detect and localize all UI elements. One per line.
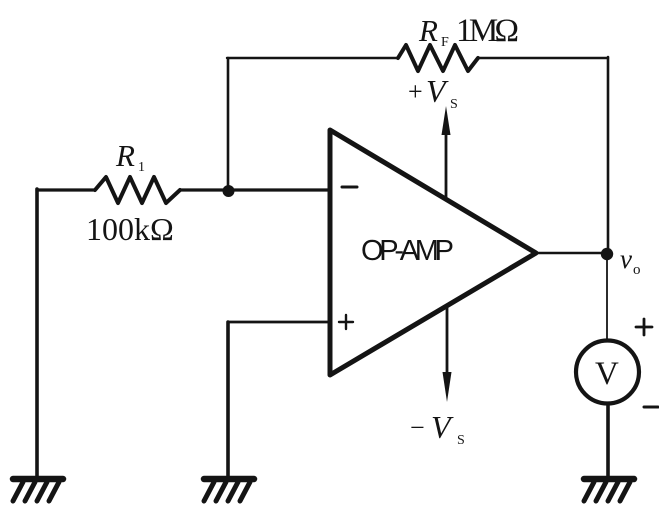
svg-text:1: 1 <box>138 160 145 175</box>
voltmeter plus label <box>636 319 652 335</box>
label 1MOhm <box>456 13 519 49</box>
svg-text:R: R <box>418 13 438 48</box>
resistor R1 <box>95 177 180 203</box>
voltmeter V1 <box>576 341 639 404</box>
svg-text:V: V <box>595 356 619 392</box>
svg-text:v: v <box>620 244 632 274</box>
svg-text:+: + <box>408 77 423 106</box>
label -VS <box>410 409 465 448</box>
svg-text:100kΩ: 100kΩ <box>86 211 174 247</box>
wire node to voltmeter <box>606 254 608 341</box>
svg-text:1MΩ: 1MΩ <box>456 13 519 49</box>
wire voltmeter to ground <box>606 404 610 478</box>
svg-text:V: V <box>426 73 449 109</box>
wire right vertical down <box>607 57 610 253</box>
op-amp minus input mark <box>342 186 357 189</box>
op-amp U1 triangle <box>330 130 536 375</box>
wire output <box>536 252 608 255</box>
label 100kOhm <box>86 211 174 247</box>
supply arrow +VS <box>445 128 448 199</box>
label +VS <box>408 73 458 112</box>
voltmeter minus label <box>644 406 658 409</box>
wire input left horizontal <box>37 188 95 191</box>
wire left vertical down <box>35 189 39 477</box>
svg-text:F: F <box>441 35 449 50</box>
label RF <box>418 13 449 50</box>
svg-text:S: S <box>450 97 458 112</box>
wire RF to right <box>478 57 608 59</box>
output node dot <box>601 248 613 260</box>
svg-text:OP-AMP: OP-AMP <box>361 235 454 267</box>
resistor RF <box>398 45 478 71</box>
svg-text:o: o <box>633 262 641 278</box>
junction node dot <box>223 185 235 197</box>
wire noninverting input horizontal <box>228 321 330 324</box>
svg-text:R: R <box>115 138 135 173</box>
svg-text:V: V <box>431 409 454 445</box>
wire R1 to inverting input <box>180 188 330 191</box>
wire middle vertical down <box>226 322 230 477</box>
svg-text:−: − <box>410 413 425 442</box>
ground middle <box>204 479 254 501</box>
label R1 <box>115 138 145 175</box>
wire feedback vertical up <box>227 58 230 190</box>
label vo <box>620 244 641 278</box>
label OP-AMP <box>361 235 454 267</box>
wire feedback top horizontal <box>227 57 398 59</box>
ground left <box>13 479 63 501</box>
ground right <box>584 479 634 501</box>
supply arrow -VS <box>446 308 449 378</box>
op-amp plus input mark <box>339 315 353 329</box>
svg-text:S: S <box>457 433 465 448</box>
